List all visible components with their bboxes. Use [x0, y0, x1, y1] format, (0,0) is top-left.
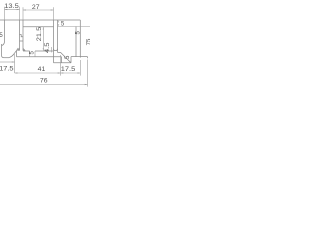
lip left wall [16, 51, 18, 57]
ext line 13.5 left [4, 7, 6, 20]
dim 41 arrows [15, 72, 18, 73]
svg-text:4.5: 4.5 [44, 42, 51, 53]
profile top face [0, 19, 80, 21]
svg-text:41: 41 [38, 66, 46, 73]
ext chamfer start [60, 55, 62, 76]
ext line 27 left [22, 7, 24, 20]
svg-text:75: 75 [87, 38, 90, 45]
right foot bottom [54, 62, 72, 64]
lip bottom face [17, 56, 62, 58]
right ledge [71, 56, 88, 58]
ext right edge lower [79, 60, 81, 76]
left snap leg inner wall [23, 20, 25, 50]
dim 76 line [0, 84, 88, 86]
svg-text:17.5: 17.5 [61, 66, 76, 73]
right tab lower face [58, 26, 91, 28]
svg-text:13.5: 13.5 [4, 3, 19, 10]
centre block bottom [23, 50, 30, 52]
profile right edge [79, 20, 81, 58]
lip right wall [61, 57, 63, 63]
right foot step up [70, 57, 72, 63]
dim 13.5 line [5, 9, 20, 11]
dim 41 line [15, 72, 61, 74]
svg-text:76: 76 [40, 77, 48, 84]
dim 4.5 line [51, 47, 53, 52]
ledge right tick [87, 57, 89, 59]
ext left foot tip [14, 54, 16, 73]
background [0, 0, 90, 90]
dim 27 arrows [23, 9, 26, 10]
snap slot detent step [20, 35, 24, 37]
left foot inner wall [4, 20, 6, 42]
left foot outer wall [2, 44, 5, 58]
dim 17.5 right line [61, 72, 81, 74]
dim 17.5 right arrows [61, 72, 64, 73]
dim 21.5 line vertical [42, 27, 44, 51]
left foot cavity curve [2, 42, 5, 46]
left foot bottom [4, 57, 9, 59]
channel floor [23, 26, 54, 28]
dim 21.5 arrows [43, 27, 44, 30]
right box inner wall [75, 27, 77, 57]
svg-text:21.5: 21.5 [36, 27, 43, 42]
dim 5 upper arrows [58, 20, 59, 22]
right snap leg u-bottom [54, 49, 58, 51]
step right of slot [58, 51, 61, 53]
dim 17.5 left arrow [12, 61, 15, 62]
dim 13.5 arrows [5, 9, 8, 10]
dim 27 line [23, 9, 54, 11]
chamfer 45deg [61, 52, 72, 62]
left spring arm curve [9, 48, 18, 58]
ext line 27 right [53, 7, 55, 20]
dim 17.5 left line [0, 61, 15, 63]
dim 5 lower ticks [29, 51, 31, 57]
snap slot bridge [20, 40, 24, 42]
ext 76 right [87, 60, 89, 87]
dim 76 arrows [85, 84, 88, 85]
right snap leg walls [53, 20, 55, 63]
left snap leg outer wall [18, 20, 20, 50]
svg-text:27: 27 [32, 4, 40, 11]
svg-text:17.5: 17.5 [0, 66, 14, 73]
ext line 13.5 right [19, 7, 21, 20]
